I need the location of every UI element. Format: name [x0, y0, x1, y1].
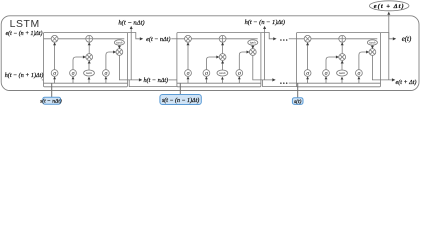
svg-text:s(t − (n − 1)Δt): s(t − (n − 1)Δt)	[162, 97, 199, 104]
svg-text:h(t − (n − 1)Δt): h(t − (n − 1)Δt)	[245, 19, 285, 26]
svg-text:e(t − nΔt): e(t − nΔt)	[146, 36, 170, 43]
svg-text:h(t − nΔt): h(t − nΔt)	[118, 19, 144, 26]
svg-text:h(t − nΔt): h(t − nΔt)	[143, 77, 168, 84]
svg-text:LSTM: LSTM	[10, 19, 40, 30]
svg-text:e(t + Δt): e(t + Δt)	[374, 3, 405, 10]
svg-text:e(t − (n + 1)Δt): e(t − (n + 1)Δt)	[6, 30, 43, 37]
svg-text:s(t − nΔt): s(t − nΔt)	[40, 98, 62, 105]
svg-text:e(t + Δt): e(t + Δt)	[396, 79, 417, 86]
svg-text:h(t − (n + 1)Δt): h(t − (n + 1)Δt)	[5, 72, 44, 79]
svg-text:e(t): e(t)	[402, 36, 412, 43]
svg-text:s(t): s(t)	[294, 98, 302, 105]
